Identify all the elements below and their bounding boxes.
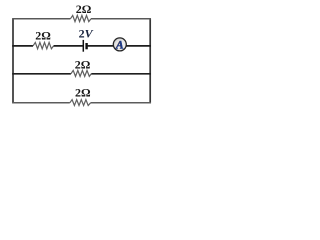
svg-text:2Ω: 2Ω: [75, 58, 91, 72]
battery V1 long plate (+): [82, 40, 84, 52]
svg-text:2V: 2V: [79, 26, 94, 40]
wire: row2 from battery to ammeter: [87, 45, 113, 47]
wire: row2 from ammeter to right bus: [126, 45, 151, 47]
svg-text:A: A: [115, 40, 124, 52]
resistor R3 (middle branch, 2 ohm): [71, 70, 91, 76]
svg-text:2Ω: 2Ω: [35, 29, 51, 43]
wire: row3 from left bus to R3: [12, 73, 71, 75]
wire: left vertical bus: [12, 19, 14, 104]
wire: top row right segment: [91, 18, 151, 20]
wire: row2 from left bus to R2: [12, 45, 33, 47]
wire: bottom row left segment: [12, 102, 70, 104]
svg-text:2Ω: 2Ω: [75, 85, 91, 99]
resistor R1 (top branch, 2 ohm): [70, 15, 91, 21]
wire: bottom row right segment: [91, 102, 151, 104]
wire: right vertical bus: [149, 19, 151, 104]
resistor R2 (battery branch, 2 ohm): [33, 42, 54, 48]
wire: row2 from R2 to battery: [54, 45, 83, 47]
resistor R4 (bottom branch, 2 ohm): [70, 100, 91, 106]
battery V1 short plate (-): [85, 43, 87, 49]
svg-text:2Ω: 2Ω: [76, 2, 92, 16]
ammeter M1 body circle: [113, 38, 126, 51]
wire: row3 from R3 to right bus: [91, 73, 151, 75]
wire: top row left segment: [12, 18, 70, 20]
